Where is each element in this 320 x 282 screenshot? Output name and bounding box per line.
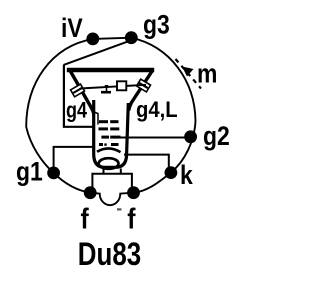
svg-text:g4: g4	[66, 99, 88, 123]
pin iV	[86, 33, 99, 46]
grid dashes row D	[99, 143, 119, 146]
right hatched patch	[137, 79, 151, 92]
svg-text:f: f	[127, 203, 136, 235]
svg-text:g3: g3	[143, 10, 170, 40]
svg-text:k: k	[180, 160, 193, 190]
square symbol	[117, 81, 126, 90]
grid dashes row B	[99, 127, 120, 130]
g1 wire	[54, 147, 93, 170]
thin link from funnel to grid	[94, 112, 98, 125]
m arrow (metallization marker)	[176, 59, 202, 89]
g4 connection box	[64, 65, 93, 127]
column (tube body with U bottom)	[94, 100, 129, 167]
grid dashes row C	[101, 136, 120, 139]
pin f right	[127, 186, 140, 199]
envelope outline of tube Du83	[26, 38, 195, 206]
internal connection symbol (⊥)	[101, 85, 111, 92]
heater leads to f pins	[92, 174, 131, 189]
pin g3	[125, 31, 138, 44]
svg-text:m: m	[197, 59, 217, 89]
inner wire across funnel	[80, 85, 146, 89]
speck near bottom	[117, 208, 122, 210]
svg-text:g1: g1	[16, 157, 43, 187]
g2 wire	[121, 137, 189, 139]
pin g2	[184, 130, 197, 143]
funnel top edge (display screen)	[67, 68, 154, 73]
cathode arc	[97, 148, 121, 152]
grid dashes row A	[99, 120, 119, 123]
pin g1	[47, 167, 60, 180]
pin f left	[84, 186, 97, 199]
svg-text:g4,L: g4,L	[136, 98, 178, 122]
funnel left slant	[70, 71, 94, 114]
wire g3 to funnel corner	[64, 40, 132, 65]
svg-text:Du83: Du83	[78, 237, 141, 272]
svg-text:f: f	[81, 203, 90, 235]
pin k	[165, 166, 178, 179]
svg-text:g2: g2	[203, 121, 230, 151]
funnel right slant	[129, 70, 153, 111]
k wire	[124, 155, 169, 169]
left hatched patch (g4 electrode)	[71, 84, 85, 97]
svg-text:iV: iV	[61, 13, 83, 43]
heater circle	[99, 158, 119, 169]
